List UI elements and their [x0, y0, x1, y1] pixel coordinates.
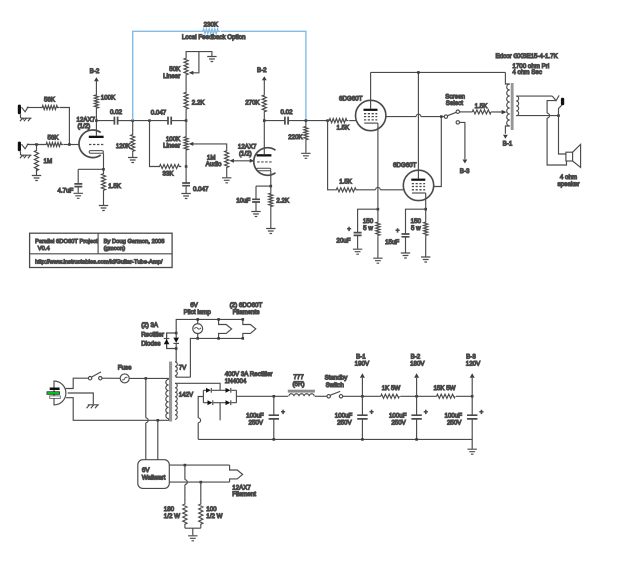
svg-text:(gmoon): (gmoon) [104, 246, 126, 252]
node V3 plate to rail [417, 71, 420, 74]
node reservoir cap [273, 395, 276, 398]
bridge diode D3 [206, 388, 211, 393]
svg-text:15uF: 15uF [385, 239, 399, 246]
wire hot to switch [66, 378, 89, 388]
svg-text:10uF: 10uF [236, 197, 250, 204]
svg-text:250V: 250V [249, 419, 264, 426]
svg-text:+: + [370, 409, 374, 416]
input jack J1 [18, 105, 29, 115]
U1b cathode [257, 168, 271, 186]
wire cathode to bypass [78, 168, 103, 170]
node J2/1M junction [35, 143, 38, 146]
svg-text:5 w: 5 w [363, 225, 373, 232]
svg-text:Select: Select [446, 100, 463, 107]
node power grid junction [326, 119, 329, 122]
capacitor 20uF (cathode bypass V2) [336, 209, 378, 249]
bridge diode D5 [208, 400, 213, 405]
svg-text:1/2 W: 1/2 W [206, 513, 222, 520]
wire 56K to junction column [60, 108, 70, 145]
AC plug body [54, 381, 66, 405]
speaker (4 ohm) [557, 144, 580, 188]
PSU ground symbol [468, 449, 477, 454]
svg-text:+: + [347, 226, 351, 233]
svg-text:120V: 120V [466, 361, 481, 368]
svg-text:220K: 220K [288, 134, 303, 141]
wire standby to B-1 node [343, 395, 381, 397]
capacitor 0.02 (coupling stage2) [280, 109, 293, 125]
svg-text:Switch: Switch [326, 382, 345, 389]
output jack shorting leaf [547, 101, 566, 165]
title block box [30, 233, 173, 267]
pentode V3 6DG60T envelope [393, 162, 434, 201]
wire node to 33K tap node [133, 120, 150, 122]
V3 plate [411, 72, 425, 180]
wire secondary top to jack tip [516, 95, 552, 97]
svg-text:250V: 250V [447, 419, 462, 426]
svg-text:6DG60T: 6DG60T [393, 162, 417, 169]
resistor 15K 5W [433, 385, 455, 398]
wallwart output top wire [169, 464, 229, 466]
wire C to feedback node [118, 120, 133, 122]
svg-text:Audio: Audio [206, 161, 222, 168]
node filament V3 top [242, 318, 245, 321]
svg-text:B-3: B-3 [466, 354, 476, 361]
output jack sleeve bar [561, 98, 564, 105]
V3 grids (3 dashed rows) [412, 184, 425, 190]
node B-3 [471, 395, 474, 398]
svg-text:Filament: Filament [232, 491, 256, 498]
B-2 supply arrow (stage 2) [257, 67, 267, 93]
100K wiper arrow [189, 142, 227, 149]
choke 777 (5R) [288, 374, 315, 396]
wire ground prong to chassis [68, 393, 94, 404]
diode D1 (3A) [164, 333, 170, 349]
capacitor 100uF 250V (B-2) [389, 396, 428, 439]
svg-text:+: + [396, 228, 400, 235]
diode pair labels [141, 322, 164, 347]
capacitor 100uF 250V (B-1) [335, 396, 374, 439]
svg-text:0.047: 0.047 [151, 110, 167, 117]
svg-text:B-1: B-1 [356, 354, 366, 361]
node 33K tap [148, 119, 151, 122]
output transformer secondary winding [516, 96, 518, 116]
ground under 220K [301, 153, 310, 158]
node sleeve/secondary [557, 114, 560, 117]
wire 56K ch2 to grid junction [64, 144, 80, 146]
capacitor 100uF 250V (B-3) [445, 396, 484, 439]
resistor 1.5K (screen) [460, 103, 502, 114]
svg-text:0.02: 0.02 [280, 109, 293, 116]
resistor 220K (grid leak power) [288, 121, 308, 153]
svg-text:100uF: 100uF [389, 412, 407, 419]
resistor 1M (grid leak) [34, 145, 52, 176]
ground under 4.7uF [74, 193, 83, 198]
svg-text:400V 3A Rectifier: 400V 3A Rectifier [225, 371, 273, 378]
ground under 150 V3 [421, 257, 430, 262]
PSU ground rail [198, 439, 472, 448]
wire C2 to feedback right node [288, 120, 306, 122]
node screens tie [440, 115, 443, 118]
node rail cap3 [415, 438, 418, 441]
V2 cathode [364, 123, 378, 209]
hop DC minus over AC neutral [198, 418, 200, 423]
svg-text:speaker: speaker [557, 181, 579, 188]
svg-text:Rectifier: Rectifier [141, 331, 164, 338]
node cathode2 [270, 185, 273, 188]
6V wallwart box [138, 460, 170, 489]
wire jack sleeve to bus [559, 105, 562, 115]
svg-text:(5R): (5R) [292, 381, 304, 388]
node diode bottom [175, 347, 178, 350]
svg-text:1M: 1M [44, 158, 53, 165]
svg-text:142V: 142V [179, 392, 194, 399]
DC minus drop [198, 397, 203, 440]
switch Standby [325, 375, 349, 398]
output transformer primary winding [505, 72, 509, 133]
node lamp bottom [196, 337, 199, 340]
svg-text:250V: 250V [337, 419, 352, 426]
hum balance center tie [185, 528, 201, 535]
bridge labels [225, 371, 273, 385]
svg-text:1.5K: 1.5K [337, 125, 351, 132]
ground under tone cap [181, 194, 190, 199]
svg-text:7V: 7V [179, 364, 187, 371]
node 100R tap [200, 481, 203, 484]
wire V2 screen to switch pole [386, 116, 444, 118]
svg-text:+: + [424, 409, 428, 416]
svg-text:15K 5W: 15K 5W [433, 385, 455, 392]
svg-text:100: 100 [206, 506, 217, 513]
U1a plate [89, 121, 104, 138]
power transformer primary winding [166, 379, 169, 418]
svg-text:Edcor GXSE15-4-1.7K: Edcor GXSE15-4-1.7K [496, 53, 559, 60]
V3 cathode [412, 193, 426, 209]
ground under 1M Audio [222, 178, 231, 183]
leaf hop over bottom wire [547, 113, 549, 118]
hop 180 lead over bottom wire [185, 480, 187, 485]
hop over AC neutral [146, 418, 148, 423]
node plate/coupling junction [95, 119, 98, 122]
capacitor 15uF (cathode bypass V3) [385, 209, 426, 252]
wire 142V top to bridge [175, 383, 220, 390]
U1a grid (dashed) [89, 144, 103, 146]
node filament V2 top [217, 318, 220, 321]
wire hop [376, 187, 381, 189]
svg-text:Parallel 6DO60T Project: Parallel 6DO60T Project [35, 239, 98, 245]
svg-text:Pilot lamp: Pilot lamp [184, 309, 212, 316]
ground under 150 V2 [373, 258, 382, 263]
50K wiper arrow [189, 52, 199, 75]
filament labels [230, 302, 263, 316]
svg-text:190V: 190V [355, 361, 370, 368]
wallwart neutral drop wire [157, 420, 159, 459]
node lamp top [196, 318, 199, 321]
svg-text:777: 777 [293, 374, 304, 381]
U1b plate [257, 121, 272, 157]
B-1 arrow under primary [503, 135, 513, 148]
capacitor 0.047 (coupling to tone) [150, 110, 187, 125]
svg-text:6V: 6V [142, 467, 150, 474]
node diode top [175, 332, 178, 335]
DC heater top rail [176, 319, 243, 333]
bridge diode D6 [226, 400, 231, 405]
wire V3 screen up to tie [434, 117, 442, 187]
node rail cap1 [273, 438, 276, 441]
B-3 arrow [466, 354, 481, 397]
svg-text:4.7uF: 4.7uF [58, 188, 74, 195]
resistor 1.5K (grid stopper V3) [335, 179, 358, 192]
svg-text:1N4004: 1N4004 [225, 378, 247, 385]
wire to speaker top [559, 116, 566, 154]
ground under 120K [128, 158, 137, 163]
resistor 2.2K (tone) [184, 91, 205, 121]
potentiometer 1M Audio (volume) [206, 149, 229, 177]
node filament V3 bottom [242, 337, 245, 340]
svg-text:2.2K: 2.2K [192, 100, 206, 107]
resistor 270K (plate load stage2) [245, 93, 266, 121]
plate top rail [371, 71, 506, 73]
ground under 1M [32, 176, 41, 181]
triode U1a 12AX7 envelope [77, 116, 101, 157]
svg-text:1K 5W: 1K 5W [382, 385, 401, 392]
svg-text:B-2: B-2 [411, 354, 421, 361]
wire to power tube grids [306, 120, 328, 122]
svg-text:V0.4: V0.4 [38, 246, 51, 252]
svg-text:100uF: 100uF [445, 412, 463, 419]
bridge diode D4 [226, 388, 231, 393]
resistor 100 1/2W (hum balance) [199, 482, 223, 528]
node cathode junction [102, 168, 105, 171]
ground under 2.2K stage2 [266, 229, 275, 234]
AC plug hot prong [50, 388, 60, 391]
svg-text:56K: 56K [44, 96, 56, 103]
node wallwart neutral tap [157, 419, 160, 422]
resistor 1.5K (grid stopper V2) [328, 119, 356, 132]
bridge rectifier outline [203, 390, 236, 402]
V2 grids (3 dashed rows) [364, 114, 377, 120]
input jack J2 [18, 142, 29, 152]
resistor 1.5K (cathode stage1) [101, 169, 121, 205]
B-1 arrow [355, 354, 370, 397]
V2 plate [364, 72, 378, 110]
resistor 33K [158, 164, 182, 177]
wire secondary bottom [516, 115, 558, 117]
svg-text:100K: 100K [101, 95, 116, 102]
output jack tip contact [552, 95, 559, 100]
wallwart output bottom wire [169, 481, 229, 483]
node V2 cathode junction [377, 208, 380, 211]
wire to B-2 node [400, 395, 436, 397]
output transformer core [511, 83, 514, 130]
AC plug neutral prong [50, 396, 61, 399]
svg-text:33K: 33K [162, 171, 174, 178]
wire V3 grid feed [328, 121, 335, 190]
svg-text:B-2: B-2 [257, 67, 267, 74]
svg-text:5 w: 5 w [411, 225, 421, 232]
node tone column / signal [185, 119, 188, 122]
node wallwart hot tap [145, 377, 148, 380]
chassis ground (mains earth) [87, 405, 99, 408]
svg-text:+: + [480, 409, 484, 416]
pilot lamp 6V [184, 302, 212, 338]
wire neutral to transformer [66, 398, 169, 421]
local feedback loop (blue) wire [133, 29, 306, 120]
node feedback right / 220K [305, 119, 308, 122]
wire to B-3 node [456, 395, 472, 397]
svg-text:1.5K: 1.5K [108, 183, 122, 190]
svg-text:1.5K: 1.5K [339, 179, 353, 186]
U1b grid (dashed) [257, 161, 272, 163]
switch Screen Select [444, 93, 465, 124]
resistor 180 1/2W (hum balance) [164, 465, 187, 528]
wire tap node down to 33K [150, 121, 158, 167]
capacitor 0.02 (coupling stage1) [110, 109, 123, 124]
power transformer core [169, 362, 172, 422]
svg-text:http://www.instructables.com/i: http://www.instructables.com/id/Guitar-T… [35, 260, 163, 266]
svg-text:120K: 120K [116, 143, 131, 150]
resistor 150 5w (cathode V2) [363, 209, 380, 258]
svg-text:230K: 230K [204, 21, 219, 28]
svg-text:180V: 180V [410, 361, 425, 368]
svg-text:1.5K: 1.5K [475, 103, 489, 110]
svg-text:Diodes: Diodes [141, 341, 160, 348]
capacitor 100uF 250V (reservoir) [246, 396, 285, 439]
svg-text:180: 180 [164, 506, 175, 513]
ground under 1.5K [99, 206, 108, 211]
node feedback left [131, 119, 134, 122]
node B-1 [361, 395, 364, 398]
svg-text:270K: 270K [245, 100, 260, 107]
switch AC power [88, 372, 102, 380]
power transformer 142V winding [175, 383, 194, 419]
wire 7V top to rectifier diodes [175, 349, 176, 362]
U1a cathode [89, 151, 103, 170]
svg-text:By Doug Garmon, 2008: By Doug Garmon, 2008 [104, 239, 165, 245]
svg-text:Wallwart: Wallwart [142, 475, 166, 482]
filament loop V3 [243, 319, 256, 338]
resistor 56K (channel 2) [45, 135, 64, 147]
svg-text:20uF: 20uF [336, 237, 350, 244]
arrow screen feed to B-1 winding [502, 110, 507, 114]
svg-text:Standby: Standby [325, 375, 349, 382]
wire switch to fuse [102, 377, 120, 379]
jack J1 sleeve chassis ground [20, 114, 32, 121]
pentode V2 6DG60T envelope [339, 95, 386, 130]
svg-text:100uF: 100uF [335, 412, 353, 419]
capacitor 0.047 (tone bottom) [182, 167, 209, 194]
AC plug ground prong (green) [47, 392, 60, 395]
ground under 15uF [401, 253, 410, 258]
svg-text:B-3: B-3 [460, 168, 470, 175]
wire 142V bottom to bridge [219, 403, 221, 421]
1M wiper arrow to U1b grid [229, 159, 254, 163]
B-3 arrow [460, 160, 470, 175]
ground under 20uF [353, 249, 362, 254]
resistor 56K (channel 1) [41, 96, 60, 109]
svg-text:0.02: 0.02 [110, 109, 123, 116]
potentiometer 100K Linear [163, 121, 188, 167]
filament loop V2 (2) 6DO60T [219, 319, 232, 338]
svg-text:+: + [281, 409, 285, 416]
B-2 supply arrow (stage 1) [90, 68, 100, 94]
ground at tone top [207, 57, 216, 62]
svg-text:1/2 W: 1/2 W [164, 513, 180, 520]
node 180R tap [184, 464, 187, 467]
svg-text:Fuse: Fuse [118, 364, 132, 371]
ground under 10uF [251, 212, 260, 217]
capacitor 4.7uF (cathode bypass) [58, 169, 83, 194]
svg-text:B-1: B-1 [503, 140, 513, 147]
power transformer 7V winding [175, 362, 187, 376]
svg-text:2.2K: 2.2K [276, 197, 290, 204]
node stage2 plate junction [263, 119, 266, 122]
ground hum balance [188, 536, 197, 541]
svg-text:(2) 3A: (2) 3A [141, 322, 159, 329]
transformer labels [496, 53, 559, 76]
svg-text:Filaments: Filaments [233, 309, 260, 316]
rectifier diode pair loop [167, 333, 177, 349]
svg-text:B-2: B-2 [90, 68, 100, 75]
resistor 150 5w (cathode V3) [411, 209, 428, 256]
heater return rail [190, 338, 242, 377]
wire 7V bottom to return [175, 376, 190, 378]
wire cathode2 junction [256, 185, 271, 187]
wire fuse to transformer primary [129, 378, 168, 379]
node B-2 [415, 395, 418, 398]
resistor 100K (plate load stage1) [94, 94, 116, 122]
wire J1 to R 56K [27, 107, 41, 109]
svg-text:100uF: 100uF [246, 412, 264, 419]
resistor 1K 5W [381, 385, 401, 398]
svg-text:4 ohm Sec: 4 ohm Sec [512, 69, 542, 76]
svg-text:(1/2): (1/2) [78, 123, 91, 130]
wire hop over V3 plate lead [416, 114, 421, 116]
node input junction [68, 143, 71, 146]
node V3 cathode junction [424, 208, 427, 211]
node filament V2 bottom [217, 337, 220, 340]
svg-text:(1/2): (1/2) [239, 151, 252, 158]
12AX7 filament labels [232, 484, 256, 498]
diode D2 (3A) [173, 333, 179, 349]
capacitor 10uF (cathode bypass stage2) [236, 186, 260, 211]
wire B-3 tap [460, 122, 465, 159]
node rail cap2 [361, 438, 364, 441]
wire choke to standby [315, 395, 327, 397]
wire J2 to node [27, 144, 45, 146]
jack J2 sleeve chassis ground [20, 151, 32, 158]
tone stack top wire [186, 52, 212, 57]
resistor 120K [116, 121, 135, 157]
triode U1b 12AX7 envelope [238, 144, 276, 176]
wire 1.5K to V3 grid with hop over V2 cathode [357, 189, 403, 191]
wallwart hot drop wire [145, 378, 147, 459]
svg-text:6DG60T: 6DG60T [339, 95, 363, 102]
wire plate to C 0.02 [96, 120, 114, 122]
svg-text:56K: 56K [47, 135, 59, 142]
filament loop 12AX7 [230, 465, 243, 482]
fuse F1 [118, 364, 132, 383]
wire plate2 to C 0.02 [264, 120, 284, 122]
svg-text:250V: 250V [391, 419, 406, 426]
svg-text:0.047: 0.047 [193, 186, 209, 193]
svg-text:Local Feedback Option: Local Feedback Option [182, 34, 246, 41]
node tone bottom junction [185, 165, 188, 168]
svg-text:Linear: Linear [163, 73, 180, 80]
B+ feed wire [236, 395, 288, 397]
resistor 2.2K (cathode stage2) [269, 186, 290, 228]
svg-text:Linear: Linear [163, 143, 180, 150]
potentiometer 50K Linear [163, 57, 188, 91]
